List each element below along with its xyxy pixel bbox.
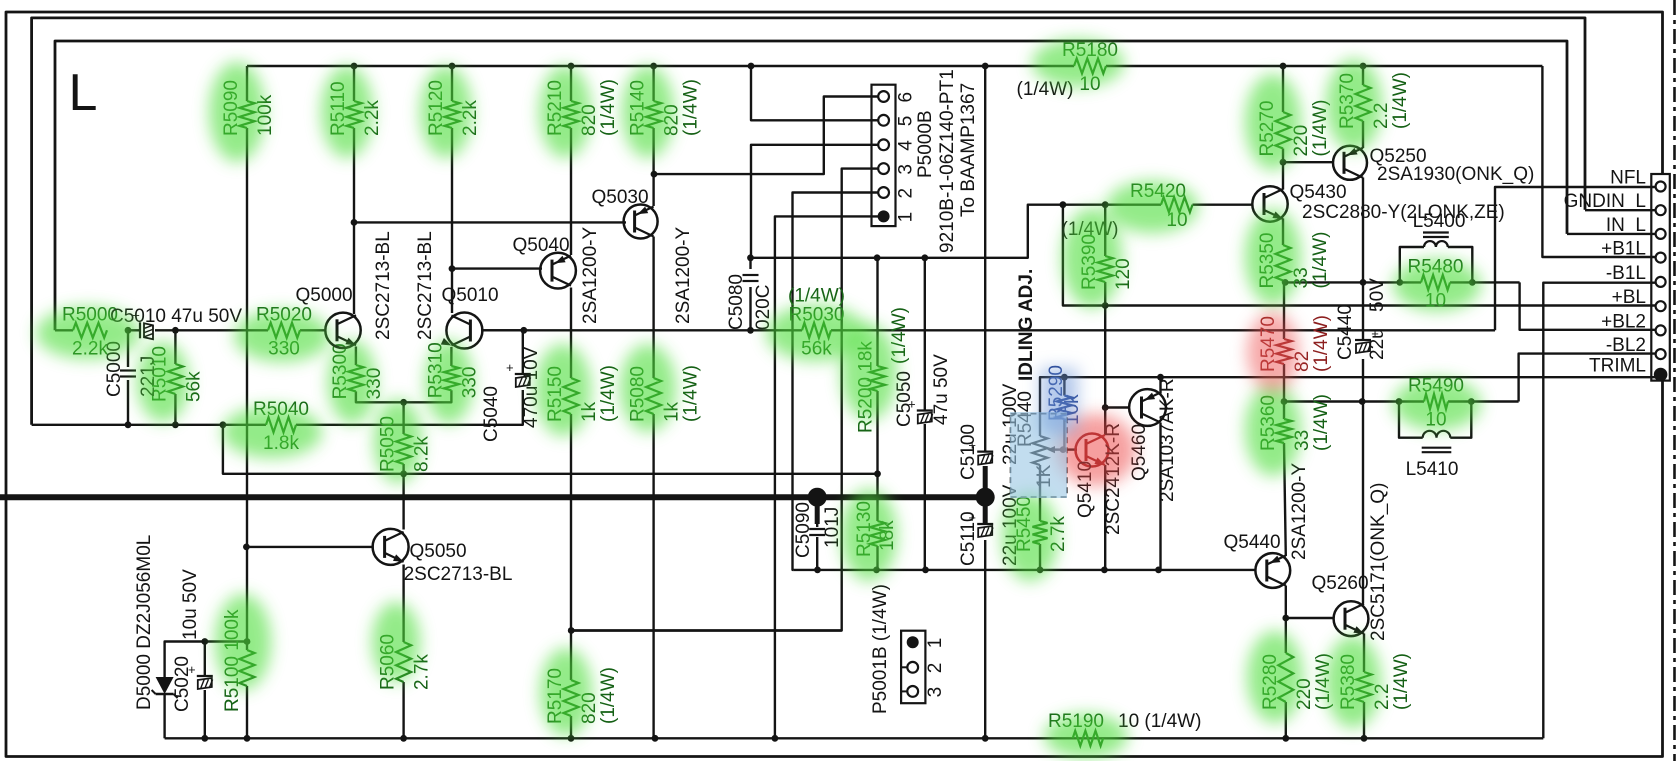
label IDLING ADJ [1016,269,1037,381]
label 2SC2880-Y [1302,202,1505,223]
label P5000B [915,110,936,178]
resistor R5060 [396,642,411,682]
transistor Q5030 [624,205,658,239]
junction at 1285.2,282.4 [1282,279,1289,286]
wire Q5410 base [1063,448,1077,450]
label Q5410 [1075,461,1096,518]
svg-text:C5110: C5110 [958,511,979,566]
svg-text:(1/4W): (1/4W) [788,285,845,306]
label 2SA1930 [1377,164,1534,185]
label To BAAMP1367 [958,83,979,217]
wire Q5440 collector to Q5260 base [1285,586,1287,619]
svg-text:2: 2 [925,663,946,674]
junction at 403.6,402.3 [400,399,407,406]
wire C5110 thick stub [983,497,988,525]
svg-text:47u 50V: 47u 50V [931,354,952,425]
transistor Q5040 [540,253,576,289]
junction at 403.6,738.3 [400,735,407,742]
pin 4 P5000B [872,139,889,150]
svg-text:1: 1 [925,638,946,649]
svg-text:C5440: C5440 [1335,304,1356,360]
label C5000 [104,341,125,397]
resistor R5480 [1421,275,1450,290]
svg-text:-B1L: -B1L [1606,263,1646,284]
svg-text:(1/4W): (1/4W) [1391,653,1412,710]
pin TRIML [1654,368,1668,382]
svg-text:D5000 DZ2J056M0L: D5000 DZ2J056M0L [134,535,155,710]
svg-text:C5100: C5100 [958,424,979,480]
column R5300 top [355,347,357,366]
pin 6 P5000B [872,91,889,102]
capacitor C5110 [968,510,993,537]
pin 3 P5000B [872,163,889,174]
label 2SC2412K-R [1103,423,1124,535]
junction at 750.5,257.8 [747,254,754,261]
capacitor C5080 [743,275,759,281]
transistor Q5250 [1333,146,1367,180]
label Q5460 [1129,424,1150,481]
junction at 523.8,330.3 [520,327,527,334]
junction at 1362.2,401.5 [1359,398,1366,405]
svg-text:2SC2713-BL: 2SC2713-BL [415,231,436,340]
svg-text:22u: 22u [1367,328,1388,360]
junction at 1062.9,204.7 [1060,201,1067,208]
wire R5010 column [174,330,176,364]
wire R5010/C5000 bottom row y425 [32,424,223,426]
resistor R5390 [1098,256,1113,282]
junction at 246.4,546.9 [243,544,250,551]
column R5200-R5130 [876,258,878,366]
resistor R5300 [348,365,363,391]
junction at 1283,162.2 [1280,159,1287,166]
label P5001B [870,584,891,714]
idling adj dashed box [1011,414,1067,497]
transistor Q5440 [1255,553,1290,588]
junction at 1472.3,282.4 [1469,279,1476,286]
column R5370-Q5250 [1362,66,1364,85]
junction at 222.9,424.8 [220,421,227,428]
wire pin6 to R5140 [654,97,884,175]
resistor R5450 [1033,521,1048,544]
svg-text:Q5010: Q5010 [441,285,498,306]
label Q5000 [295,285,352,306]
junction at 1399,401.5 [1396,398,1403,405]
label C5040 [481,386,502,442]
junction at 751,66 [748,63,755,70]
label C5080 [726,274,747,330]
transistor Q5260 [1334,601,1369,636]
diode D5000 zener [152,677,178,698]
wire NFL feedback riser [1495,187,1656,330]
junction at 1105.2,407.5 [1102,404,1109,411]
junction at 1105.2,204.7 [1102,201,1109,208]
junction at 204.8,738.3 [201,735,208,742]
resistor R5280 [1278,653,1293,702]
label C5010 value [110,306,242,327]
pin 2 P5000B [872,187,889,198]
junction at 1104.4,569.9 [1101,567,1108,574]
wire C5090 stub [815,497,820,524]
wire mid row y570 [793,569,1255,571]
pin -BL2 [1656,349,1666,359]
wire row y258 C5080-R5200-C5050 [751,205,1063,258]
pin +BL [1656,301,1666,311]
svg-text:10 (1/4W): 10 (1/4W) [1118,711,1201,732]
svg-text:Q5430: Q5430 [1289,182,1346,203]
pin 3 P5001B [901,686,918,697]
label Q5440 [1223,532,1280,553]
column R5360-Q5440 [1283,402,1285,420]
inductor L5400 [1424,241,1448,247]
svg-text:Q5440: Q5440 [1223,532,1280,553]
resistor R5200 [870,366,885,391]
label L5410 [1406,459,1459,480]
column Q5460 emitter-collector [1159,377,1161,393]
column Q5430 collector-emitter [1282,162,1284,189]
connector CN left-channel [1651,174,1670,381]
wire R5290 column [1063,377,1065,395]
svg-text:GNDIN_L: GNDIN_L [1564,191,1646,212]
label Q5250 [1369,146,1426,167]
junction at 1363,66 [1360,63,1367,70]
label 2SA1200-Y Q5440 [1289,462,1310,560]
wire pin2 riser [793,193,884,570]
svg-text:(1/4W): (1/4W) [681,79,702,136]
wire R5300 bottom to node [356,391,404,402]
wire IN_L pin [1567,233,1656,235]
svg-text:C5020: C5020 [172,656,193,712]
resistor R5290 [1057,396,1072,420]
resistor R5310 [444,366,459,390]
svg-text:50V: 50V [1367,278,1388,312]
svg-text:2: 2 [896,188,917,199]
wire C5000 column [127,330,129,367]
svg-text:9210B-1-06Z140-PT1: 9210B-1-06Z140-PT1 [937,69,958,253]
resistor R5470 [1277,339,1292,364]
label Q5050 [409,541,466,562]
wire Q5050 base [246,546,373,548]
wire jog to y474 row [223,425,878,474]
svg-text:2SC5171(ONK_Q): 2SC5171(ONK_Q) [1368,483,1389,641]
resistor R5350 [1276,245,1291,281]
svg-text:NFL: NFL [1610,168,1646,189]
svg-text:+BL2: +BL2 [1601,311,1646,332]
capacitor C5040 [506,360,531,387]
svg-text:C5040: C5040 [481,386,502,442]
junction at 403.6,473.8 [400,470,407,477]
thick GND bus wire [0,494,985,500]
pin -B1L [1656,277,1666,287]
column R5140-Q5030-R5080 [652,66,654,101]
junction at 774.9,738.3 [772,735,779,742]
svg-text:2SC2713-BL: 2SC2713-BL [373,231,394,340]
junction at 654,174.1 [651,171,658,178]
label 9210B-1-06Z140-PT1 [937,69,958,253]
big junction dot C5090 [808,488,827,507]
svg-text:2SA1037AK-R: 2SA1037AK-R [1157,378,1178,502]
column Q5260 collector [1362,402,1364,604]
svg-text:(1/4W): (1/4W) [598,365,619,422]
label D5000 [134,535,155,710]
junction at 924.8,257.8 [921,254,928,261]
capacitor C5090 [809,529,825,535]
label R5190 annotation [1048,711,1104,732]
resistor R5100 [240,650,255,686]
label 2SC5171 [1368,483,1389,641]
label C5110 [958,511,979,566]
wire D5000 top row [165,642,247,678]
column Q5410 leads [1104,408,1106,436]
junction at 1283,66 [1280,63,1287,70]
wire pin5 to +B rail [751,66,884,120]
junction at 128,330.3 [125,327,132,334]
pin 1 P5001B [907,636,919,648]
wire input row y330 left segment [55,329,73,331]
resistor R5420 [1161,197,1193,212]
svg-text:1: 1 [896,212,917,223]
label L5400 [1413,211,1466,232]
svg-text:10u 50V: 10u 50V [180,569,201,640]
svg-text:6: 6 [896,92,917,103]
column R5440-R5450 idling [1039,465,1041,521]
svg-text:3: 3 [896,164,917,175]
svg-text:5: 5 [896,116,917,127]
wire output row y282 [1285,281,1421,283]
resistor R5030 [802,323,831,338]
resistor R5180 [1074,59,1106,74]
svg-text:L: L [69,64,98,122]
resistor R5040 [266,417,296,432]
svg-text:TRIML: TRIML [1589,356,1646,377]
junction at 1063.1,449.6 [1060,446,1067,453]
junction at 1105.2,305.5 [1102,302,1109,309]
svg-text:3: 3 [925,687,946,698]
resistor R5360 [1277,419,1292,443]
connector P5000B [872,85,896,226]
capacitor C5100 [968,438,993,465]
svg-text:101J: 101J [822,507,843,548]
capacitor C5440 [1355,326,1379,353]
svg-text:To BAAMP1367: To BAAMP1367 [958,83,979,217]
junction at 452,268.6 [449,265,456,272]
junction at 1471.3,401.5 [1468,398,1475,405]
wire -B1L to bottom rail [1543,283,1656,739]
junction at 1158.5,569.9 [1155,567,1162,574]
resistor R5380 [1357,672,1372,702]
wire feedback row y330 right segment [481,329,524,331]
big junction dot C5100 [976,488,995,507]
pin GNDIN_L [1656,205,1666,215]
resistor R5440 idling trimmer [1033,436,1048,465]
junction at 128,424.8 [125,421,132,428]
junction at 750.5,330.3 [747,327,754,334]
capacitor C5000 [120,371,136,377]
wire TRIML row [1040,377,1656,436]
svg-text:(1/4W): (1/4W) [598,667,619,724]
label 2SA1200-Y Q5040 [580,226,601,324]
junction at 175.4,330.3 [172,327,179,334]
svg-text:(1/4W): (1/4W) [1311,394,1332,451]
label 2SA1037AK-R [1157,378,1178,502]
svg-text:2SA1200-Y: 2SA1200-Y [673,226,694,324]
junction at 571,738.3 [568,735,575,742]
svg-text:C5050: C5050 [894,371,915,427]
junction at 247,641.5 [244,638,251,645]
label 2SA1200-Y Q5030 [673,226,694,324]
label 2SC2713-BL Q5000 [373,231,394,340]
wire L5400 parallel loop [1400,247,1424,282]
junction at 655,738.3 [652,735,659,742]
junction at 1064.4,377.2 [1061,374,1068,381]
junction at 877.5,473.8 [874,470,881,477]
label Q5030 [591,187,648,208]
label C5020 [172,656,193,712]
wire R5310 bottom to node [404,390,452,402]
page boundary dash-dot line [1673,0,1676,761]
column R5390 [1104,205,1106,256]
wire pin4 riser [751,145,884,258]
resistor R5050 [396,434,411,464]
svg-text:Q5260: Q5260 [1311,573,1368,594]
pin IN_L [1656,229,1666,239]
capacitor C5020 [188,662,213,689]
junction at 1363,282.4 [1360,279,1367,286]
column C5440 [1362,282,1364,340]
svg-text:Q5000: Q5000 [295,285,352,306]
wire +B rail to +B1L [1542,66,1656,257]
junction at 204.8,641.5 [201,638,208,645]
svg-text:C5080: C5080 [726,274,747,330]
transistor Q5050 [373,529,409,565]
transistor Q5460 [1129,389,1166,426]
junction at 877.1,257.8 [874,254,881,261]
junction at 1285.8,618 [1282,615,1289,622]
svg-text:2SC2880-Y(2LONK,ZE): 2SC2880-Y(2LONK,ZE) [1302,202,1505,223]
resistor R5170 [564,680,579,716]
junction at 985.2,738.3 [982,735,989,742]
wire Q5010 base stub [481,329,524,331]
label 2SC2713-BL Q5050 [404,564,513,585]
column R5120-Q5040 base-Q5010 collector [451,66,453,101]
pin 2 P5001B [901,662,918,673]
wire VAS base row y204.7 [1063,203,1161,205]
junction at 985.2,66 [982,63,989,70]
junction at 247,738.3 [244,735,251,742]
svg-text:+BL: +BL [1612,287,1646,308]
transistor Q5010 (mirrored) [441,313,483,349]
label Q5260 [1311,573,1368,594]
wire pin3 riser to y630 row [571,169,883,631]
wire R5040 row y425 to C5040 [223,424,266,426]
wire R5490 row [1284,400,1424,402]
transistor Q5410 [1076,434,1109,467]
resistor R5370 [1356,85,1371,121]
junction at 452,66 [449,63,456,70]
wire output to +BL2 pin [1520,282,1656,329]
wire Q5460 base [1105,406,1129,408]
wire GNDIN_L pin [1585,209,1656,211]
wire L5410 parallel loop [1399,402,1423,438]
junction at 1399.8,282.4 [1396,279,1403,286]
resistor R5490 [1424,394,1448,409]
junction at 1285.8,738.3 [1282,735,1289,742]
wire Q5040 base [452,267,542,269]
resistor R5110 [347,101,362,128]
svg-text:P5000B: P5000B [915,110,936,178]
label R5390 wattage [1062,219,1119,240]
resistor R5150 [564,378,579,414]
capacitor C5010 [132,307,153,339]
svg-text:2SA1930(ONK_Q): 2SA1930(ONK_Q) [1377,164,1534,185]
wire C5080 lead [749,258,751,269]
connector P5001B [901,631,925,704]
column R5310 top [450,347,452,366]
svg-text:Q5030: Q5030 [591,187,648,208]
junction at 1040,569.9 [1037,567,1044,574]
wire C5100 thick stub [983,466,988,497]
wire D5000 bottom row [163,694,165,738]
junction at 354,66 [351,63,358,70]
wire Q5030 base row [354,221,626,223]
svg-text:-BL2: -BL2 [1606,335,1646,356]
junction at 653.6,66 [650,63,657,70]
svg-text:P5001B (1/4W): P5001B (1/4W) [870,584,891,714]
label C5090 [793,502,814,558]
transistor Q5430 [1252,186,1287,221]
label Q5430 [1289,182,1346,203]
svg-text:2SC2713-BL: 2SC2713-BL [404,564,513,585]
column C5100-C5110 from +B rail [984,66,986,452]
column R5090-R5100 [246,66,248,101]
inductor L5410 [1423,431,1451,438]
capacitor C5050 [908,397,933,424]
wire -BL2 pin to L5410 [1519,354,1656,402]
resistor R5090 [240,101,255,128]
column C5050 [924,258,926,411]
column Q5260 emitter-R5380 [1363,634,1365,673]
svg-text:L5400: L5400 [1413,211,1466,232]
column R5470 [1283,282,1285,339]
wire bottom rail [165,737,1544,739]
junction at 175.4,424.8 [172,421,179,428]
label Q5040 [512,235,569,256]
svg-text:+: + [506,360,514,375]
svg-text:(1/4W): (1/4W) [598,79,619,136]
resistor R5210 [564,101,579,128]
svg-text:Q5040: Q5040 [512,235,569,256]
column R5210-Q5040-R5150-R5170 [570,66,572,101]
label C5050 [894,371,915,427]
svg-text:4: 4 [896,140,917,151]
junction at 876.5,569.9 [873,567,880,574]
pin 1 P5000B [878,210,890,222]
resistor R5010 [168,364,183,394]
pin NFL [1656,182,1666,192]
wire y630 row [571,629,842,631]
svg-text:IN_L: IN_L [1606,215,1646,236]
svg-text:IDLING ADJ.: IDLING ADJ. [1016,269,1037,381]
column R5110-Q5000 collector [353,66,355,101]
resistor R5190 [1073,731,1103,746]
label R5180 wattage [1017,79,1074,100]
svg-text:(1/4W): (1/4W) [1311,315,1332,372]
junction at 354,222.4 [351,219,358,226]
resistor R5080 [646,378,661,414]
junction at 1160.5,377.2 [1157,374,1164,381]
column R5280 [1285,618,1287,653]
resistor R5020 [268,323,300,338]
junction at 817.5,569.9 [814,567,821,574]
